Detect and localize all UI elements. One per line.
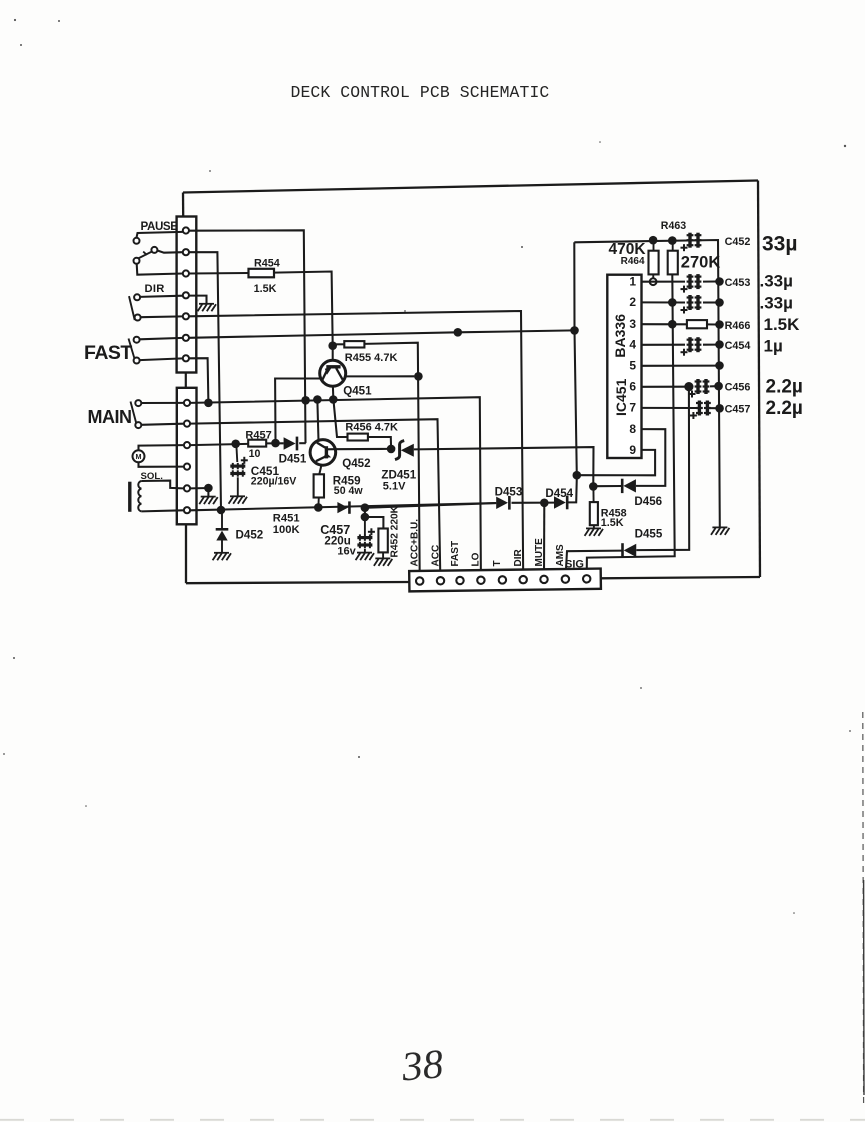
wire R457 to D451	[266, 442, 283, 444]
svg-text:M: M	[136, 452, 142, 461]
svg-text:R451: R451	[273, 512, 300, 524]
junction C457b bus	[715, 404, 724, 413]
wire Q451 base to R457 junction	[275, 379, 320, 442]
connector CN-B pin 6	[184, 507, 190, 513]
wire row M1 down to R456	[334, 402, 348, 438]
wire MUTE column	[543, 504, 545, 576]
junction C457 branch	[361, 513, 370, 522]
wire pin3 row into R454	[189, 272, 249, 275]
svg-text:R464: R464	[621, 256, 645, 267]
svg-text:.33µ: .33µ	[760, 271, 793, 290]
connector CN-A pin 5	[183, 313, 189, 319]
svg-text:3: 3	[629, 317, 636, 331]
svg-text:1: 1	[629, 274, 636, 288]
pin1 junction ring	[650, 278, 657, 285]
wire SIG to pins2-3 vertical	[587, 274, 675, 576]
svg-text:R457: R457	[245, 429, 271, 441]
junction R464 top	[649, 236, 658, 245]
svg-text:2: 2	[629, 295, 636, 309]
junction R463 bottom pin2	[668, 298, 677, 307]
wire Q451 emitter to row M1	[332, 387, 334, 399]
switch MAIN contact b	[135, 422, 141, 428]
svg-text:BA336: BA336	[612, 314, 628, 358]
ground at R452	[374, 558, 392, 566]
switch DIR lever	[129, 296, 135, 320]
switch PAUSE contact b	[134, 258, 140, 264]
svg-text:D453: D453	[495, 486, 523, 499]
svg-text:R456 4.7K: R456 4.7K	[345, 421, 398, 433]
wire C456 to bus	[710, 385, 716, 387]
connector CN-C pin 2	[437, 577, 444, 584]
connector CN-C pin 7	[540, 576, 547, 583]
wire Q451 right to junction	[346, 375, 415, 377]
resistor R455	[344, 341, 364, 347]
svg-text:10: 10	[249, 448, 261, 460]
svg-text:SIG: SIG	[565, 559, 584, 571]
svg-text:5.1V: 5.1V	[383, 480, 406, 492]
resistor R463	[668, 251, 678, 275]
junction R454/R455/Q451 collector	[328, 341, 337, 350]
wire FAST pin7 down to MAIN row	[189, 358, 208, 403]
connector CN-A pin 4	[183, 292, 189, 298]
connector CN-B pin 2	[184, 421, 190, 427]
wire IC pin3 row	[642, 323, 687, 325]
junction C456 bus	[714, 382, 723, 391]
wire IC pin7 row	[642, 407, 698, 409]
svg-text:16v: 16v	[337, 545, 356, 557]
connector CN-C pin 5	[499, 576, 506, 583]
paper speckles	[14, 19, 16, 21]
svg-text:100K: 100K	[273, 524, 300, 536]
wire C455 to bus	[703, 301, 716, 303]
svg-text:.33µ: .33µ	[760, 294, 793, 313]
ground at D452	[213, 553, 231, 561]
svg-text:R466: R466	[725, 320, 751, 332]
wire pin9 row to node A	[580, 450, 655, 475]
zener ZD451	[395, 441, 404, 460]
wire R456 right to Q452 base junction	[368, 437, 391, 449]
capacitor C456	[689, 379, 710, 398]
svg-text:ACC+B.U.: ACC+B.U.	[409, 519, 420, 567]
ground at DIR pin4	[189, 296, 207, 304]
junction FAST pin7 joins row M1	[204, 399, 213, 408]
wire DIR row to bottom connector DIR	[189, 311, 523, 576]
wire R455 right to ACC+B.U. vertical	[364, 343, 419, 576]
switch FAST contact a	[134, 337, 140, 343]
connector CN-B pin 3	[184, 442, 190, 448]
wire IC pin2 row	[642, 301, 685, 303]
svg-text:1µ: 1µ	[764, 336, 783, 355]
capacitor C457	[357, 528, 375, 548]
wire C451 to ground	[237, 477, 239, 496]
scan edge right	[862, 712, 865, 1108]
svg-text:38: 38	[399, 1040, 445, 1090]
connector CN-A pin 1	[183, 227, 189, 233]
junction C451 tap	[231, 440, 240, 449]
resistor R456	[348, 434, 368, 441]
ground at capacitor bus	[711, 527, 729, 535]
switch PAUSE lever	[138, 252, 152, 259]
wire Q452 base to junction	[336, 448, 389, 450]
svg-text:R452 220K: R452 220K	[390, 505, 401, 557]
switch FAST lever	[129, 339, 135, 360]
wire C451 stub	[236, 444, 237, 462]
wire R464 top stub	[653, 242, 655, 251]
wire pin1 to PAUSE contact a	[137, 232, 183, 238]
svg-text:2.2µ: 2.2µ	[766, 398, 803, 419]
capacitor C451	[230, 457, 248, 477]
wire D451 cathode to PAUSE bus	[299, 442, 306, 444]
wire FAST contact b to pin7	[140, 358, 183, 360]
svg-text:DIR: DIR	[513, 549, 524, 567]
junction Q452 base / ZD451	[387, 445, 396, 454]
junction Q451 emitter row M1	[329, 395, 338, 404]
wire FAST row across	[189, 330, 575, 337]
junction Q452 collector row M1	[313, 395, 322, 404]
wire motor top to CN-B pin3	[139, 445, 184, 450]
switch FAST contact b	[134, 358, 140, 364]
svg-text:50 4w: 50 4w	[334, 485, 364, 497]
svg-text:D452: D452	[236, 528, 264, 541]
solenoid SOL coil	[138, 481, 141, 511]
resistor R452	[378, 529, 387, 553]
wire MAIN contact b to CN-B pin2	[141, 424, 183, 425]
junction pin5 bus	[715, 361, 724, 370]
junction row B after diode	[361, 503, 370, 512]
connector CN-C pin 6	[519, 576, 526, 583]
switch PAUSE contact a	[134, 238, 140, 244]
capacitor C453	[681, 274, 702, 293]
switch MAIN lever	[131, 402, 137, 424]
svg-text:D456: D456	[634, 495, 662, 508]
resistor R458	[590, 502, 598, 525]
junction FAST row top vertical	[570, 326, 579, 335]
connector CN-C pin 3	[456, 577, 463, 584]
switch MAIN contact a	[135, 400, 141, 406]
junction node B	[589, 482, 598, 491]
wire D454 to node A	[567, 478, 577, 503]
wire R466 to bus	[707, 323, 716, 325]
svg-text:4: 4	[629, 337, 636, 351]
svg-text:C457: C457	[725, 404, 751, 416]
wire D455 cathode to AMS pin	[566, 551, 623, 576]
connector CN-B pin 5	[184, 485, 190, 491]
svg-text:FAST: FAST	[84, 342, 132, 364]
svg-text:LO: LO	[471, 552, 482, 566]
switch DIR contact b	[135, 315, 141, 321]
wire PAUSE pole to pin2	[157, 251, 182, 253]
wire strip joiner	[185, 373, 187, 388]
wire R463 top stub	[672, 242, 674, 251]
junction R463 top	[668, 236, 677, 245]
wire PAUSE pin1 row to vertical bus	[189, 230, 306, 443]
junction C455 bus	[715, 298, 724, 307]
wire node B to R458	[592, 486, 594, 502]
diode D453	[496, 497, 508, 509]
resistor R464	[649, 251, 659, 275]
svg-text:C453: C453	[725, 277, 751, 289]
capacitor C455	[681, 295, 702, 314]
capacitor C454	[681, 337, 702, 356]
capacitor C457b	[690, 401, 711, 420]
wire ACC+B.U. row B across bottom	[191, 503, 497, 510]
wire IC pin6 row	[642, 386, 685, 388]
resistor R459	[314, 474, 324, 497]
connector CN-C pin 9	[583, 575, 590, 582]
diode D455	[621, 543, 624, 557]
svg-text:270K: 270K	[681, 254, 721, 272]
connector CN-C pin 1	[416, 577, 423, 584]
svg-text:MAIN: MAIN	[88, 407, 132, 427]
svg-text:C452: C452	[725, 236, 751, 248]
switch PAUSE pole	[151, 247, 157, 253]
wire PAUSE contact b to pin3	[137, 264, 183, 275]
wire R458 to ground	[593, 525, 595, 528]
junction C453 bus	[715, 277, 724, 286]
wire D455 anode up to C456 node	[636, 389, 689, 550]
svg-text:R454: R454	[254, 257, 280, 269]
ground at SOL pin5	[199, 497, 217, 505]
svg-text:7: 7	[629, 401, 636, 415]
junction C454 bus	[715, 340, 724, 349]
connector CN-A pin 2	[183, 249, 189, 255]
svg-text:T: T	[492, 560, 503, 566]
wire row B to D453	[367, 503, 496, 508]
svg-text:220µ/16V: 220µ/16V	[251, 476, 297, 488]
wire SOL top to CN-B pin5	[141, 481, 183, 489]
switch DIR contact a	[134, 294, 140, 300]
svg-text:D451: D451	[279, 452, 307, 465]
junction R459 row B	[314, 503, 323, 512]
wire C453 to bus	[703, 280, 716, 282]
connector CN-B lower strip	[177, 388, 197, 525]
connector CN-B pin 1	[184, 400, 190, 406]
wire Q452 emitter to R459	[319, 465, 321, 475]
solenoid SOL core	[128, 482, 131, 512]
junction pin3 vertical	[668, 320, 677, 329]
svg-text:6: 6	[629, 379, 636, 393]
connector CN-A pin 6	[183, 335, 189, 341]
connector CN-C pin 8	[562, 575, 569, 582]
svg-text:MUTE: MUTE	[534, 538, 545, 567]
wire D453 to D454	[512, 502, 555, 504]
svg-text:D454: D454	[545, 487, 573, 500]
schematic border frame	[183, 181, 760, 584]
connector CN-B pin 4	[184, 464, 190, 470]
wire C457b to bus	[710, 407, 717, 409]
svg-text:C456: C456	[725, 382, 751, 394]
wire branch to R452	[365, 508, 384, 529]
wire MAIN contact a to CN-B pin1	[141, 402, 183, 404]
wire MAIN pin2 row to ACC column	[191, 419, 441, 576]
svg-text:Q452: Q452	[342, 457, 370, 470]
diode D451	[284, 437, 296, 450]
wire DIR contact b to pin5 and to right net	[141, 315, 183, 318]
svg-text:2.2µ: 2.2µ	[766, 376, 803, 397]
wire MAIN row M1 across to LO column	[191, 397, 481, 576]
wire node A vertical from C452 row	[574, 242, 577, 475]
wire C457 stub	[364, 519, 366, 535]
scan edge bottom	[0, 1119, 865, 1121]
svg-text:8: 8	[629, 422, 636, 436]
junction PAUSE bus crosses row M1	[301, 396, 310, 405]
svg-text:ACC: ACC	[430, 545, 441, 567]
junction R457/D451/Q451-base	[271, 439, 280, 448]
wire IC pin5 row	[642, 365, 720, 367]
connector CN-A upper strip	[177, 217, 197, 373]
ground at C457	[356, 553, 374, 561]
wire R452 to ground	[382, 552, 384, 558]
wire D456 anode to IC pin8	[636, 429, 665, 486]
op-amp IC451 BA336 body	[607, 275, 641, 458]
wire SOL pin5 to ground	[191, 488, 209, 496]
motor M	[133, 450, 145, 462]
wire R459 to row B	[317, 498, 319, 507]
svg-text:1.5K: 1.5K	[254, 283, 277, 295]
wire PAUSE pin2 row down-left bus	[189, 252, 221, 510]
svg-text:5: 5	[629, 358, 636, 372]
svg-text:IC451: IC451	[613, 378, 629, 416]
junction MUTE column	[540, 499, 549, 508]
wire R454 to R455 junction	[274, 272, 333, 346]
junction C456 left node	[684, 382, 693, 391]
wire ZD451 anode to R458 bus	[414, 447, 594, 482]
svg-text:DECK CONTROL PCB SCHEMATIC: DECK CONTROL PCB SCHEMATIC	[291, 83, 550, 102]
svg-text:1.5K: 1.5K	[764, 315, 801, 334]
transistor Q452	[310, 440, 336, 466]
svg-text:Q451: Q451	[343, 384, 372, 397]
wire C452 top row	[574, 240, 720, 527]
svg-text:R463: R463	[661, 220, 686, 232]
junction row B at D452 bus	[217, 506, 226, 515]
svg-text:D455: D455	[635, 528, 663, 541]
connector CN-A pin 7	[183, 355, 189, 361]
wire C457 to ground	[364, 549, 366, 552]
wire FAST contact a to pin6	[140, 338, 183, 339]
junction Q451 right on ACC+B.U. vertical	[414, 372, 423, 381]
svg-text:1.5K: 1.5K	[601, 517, 624, 529]
ground at R458	[585, 528, 603, 536]
resistor R466	[687, 320, 707, 328]
wire Q451 collector	[332, 348, 334, 361]
junction FAST column	[454, 328, 463, 337]
wire node B to D456	[595, 485, 621, 487]
connector CN-C pin 4	[477, 576, 484, 583]
connector CN-C bottom strip	[409, 569, 601, 592]
transistor Q451	[320, 360, 346, 386]
diode R451 (row B series diode)	[337, 502, 348, 513]
diode D456	[621, 479, 624, 493]
wire IC pin1 row	[642, 281, 685, 283]
diode D454	[554, 496, 566, 508]
junction at SOL pin5 ground stub	[204, 484, 213, 493]
svg-text:9: 9	[629, 443, 636, 457]
wire motor bottom to CN-B pin4	[139, 463, 184, 467]
diode D452	[221, 514, 223, 529]
wire CN-B pin3 row to R457	[191, 444, 249, 445]
resistor R454	[249, 269, 275, 278]
svg-text:DIR: DIR	[145, 283, 165, 295]
resistor R457	[248, 440, 266, 447]
node A junction	[573, 471, 582, 480]
wire Q452 collector	[317, 402, 318, 441]
capacitor C452	[681, 233, 702, 252]
connector CN-A pin 3	[183, 270, 189, 276]
wire IC pin4 row	[642, 344, 685, 346]
junction R466 bus	[715, 320, 724, 329]
wire SOL bottom to CN-B pin6	[141, 510, 183, 511]
svg-text:FAST: FAST	[450, 541, 461, 567]
svg-text:C454: C454	[725, 340, 751, 352]
wire DIR contact a to pin4	[140, 296, 183, 297]
ground at C451	[229, 496, 247, 504]
svg-text:33µ: 33µ	[762, 233, 797, 256]
wire C454 to bus	[703, 344, 716, 346]
svg-text:R455 4.7K: R455 4.7K	[345, 352, 398, 364]
wire R464 bottom stub	[652, 274, 654, 278]
